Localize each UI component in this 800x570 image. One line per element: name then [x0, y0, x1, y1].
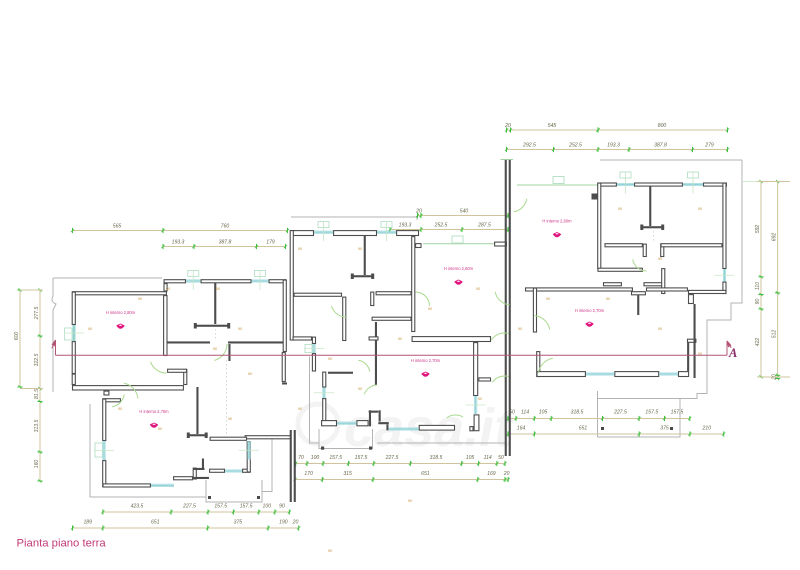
- party wall u2-u3 right: [509, 160, 511, 456]
- svg-text:227.5: 227.5: [385, 455, 399, 461]
- svg-text:105: 105: [466, 455, 475, 461]
- unit2 lower room left wall b: [323, 399, 326, 422]
- unit1 door arc room1: [151, 362, 167, 373]
- svg-text:H interno 2,80m: H interno 2,80m: [106, 310, 136, 315]
- unit3 door arc hall: [633, 259, 647, 271]
- unit2 window bottom east: [389, 428, 419, 430]
- unit2 T-bar caps: [351, 274, 374, 280]
- pergola sill unit3: [553, 177, 564, 184]
- unit1 top wall high seg c: [269, 280, 286, 283]
- unit1 bottom wall notch: [104, 391, 109, 395]
- unit1 inner partition H: [210, 437, 246, 440]
- svg-text:375: 375: [234, 520, 243, 526]
- unit2 niche left: [369, 410, 371, 426]
- svg-text:81.5: 81.5: [34, 389, 40, 399]
- unit2 door arc bottom door: [447, 415, 463, 418]
- svg-text:227.5: 227.5: [613, 410, 627, 416]
- unit1 inner T bar: [188, 434, 207, 436]
- svg-text:H interno 2,60m: H interno 2,60m: [542, 219, 572, 224]
- unit3 door arc strip2: [514, 199, 527, 212]
- unit1 window bottom1: [151, 484, 174, 486]
- unit1 door arc H1: [214, 344, 227, 360]
- unit2 living bottom wall: [412, 337, 490, 342]
- unit3 mid wall piece b: [644, 283, 664, 286]
- unit1 window lower-right wall: [239, 441, 259, 460]
- section arrow right: [727, 341, 731, 355]
- orange door-size labels: [88, 207, 703, 553]
- unit1 window top b2: [252, 271, 269, 291]
- unit1 window bottom2: [225, 470, 242, 472]
- svg-text:157.5: 157.5: [240, 504, 253, 510]
- unit1 entrance step2: [193, 477, 209, 479]
- unit1 top step wall: [164, 284, 167, 291]
- terrace corner dots unit1: [208, 496, 260, 499]
- unit1 lower room right top: [245, 436, 290, 439]
- unit2 L-wall vertical: [474, 415, 479, 431]
- unit3 partition H right: [661, 244, 722, 247]
- dim row unit1 bottom first: [101, 504, 291, 515]
- unit1 left wall upper: [72, 292, 75, 324]
- unit2 top wall seg c: [397, 231, 419, 236]
- unit1 top wall high seg b: [201, 280, 251, 283]
- svg-text:157.5: 157.5: [645, 410, 658, 416]
- unit1 top wall high seg a: [164, 280, 185, 283]
- svg-text:20: 20: [503, 471, 510, 477]
- unit2 window bottom long: [337, 422, 356, 424]
- svg-text:90: 90: [279, 504, 285, 510]
- svg-text:20: 20: [415, 209, 422, 215]
- unit3 top wall seg c: [704, 183, 727, 186]
- unit1 partition H1 right: [228, 341, 283, 343]
- unit3 window bottom1: [586, 373, 614, 375]
- unit1 entrance step3: [202, 459, 204, 471]
- svg-text:277.5: 277.5: [34, 306, 40, 320]
- unit2 right wall living: [412, 237, 415, 332]
- unit1 bottom-left corner bit: [72, 374, 75, 384]
- unit1 right wall foot: [282, 382, 287, 384]
- svg-text:651: 651: [421, 471, 430, 477]
- svg-text:692: 692: [771, 233, 777, 242]
- party wall u1-u2 upper: [290, 430, 292, 502]
- room label unit2 living: [444, 266, 474, 285]
- svg-text:600: 600: [14, 332, 20, 341]
- unit1 bottom wall band: [73, 386, 184, 390]
- unit3 lower-left bottom: [598, 268, 642, 271]
- watermark: [298, 398, 514, 458]
- unit3 partition H left jamb: [643, 244, 646, 256]
- unit1 door arc lower room: [124, 383, 138, 398]
- unit3 window top1: [617, 172, 634, 194]
- unit2 lower room bottom a: [322, 421, 337, 426]
- unit1 step up wall: [184, 370, 187, 385]
- unit3 left wall stub: [592, 194, 598, 200]
- svg-text:651: 651: [579, 426, 588, 432]
- svg-text:292.5: 292.5: [522, 143, 536, 149]
- sill box unit1 lowleft window: [95, 443, 103, 457]
- unit2 door arc living: [416, 292, 430, 306]
- unit2 niche top: [369, 411, 379, 413]
- dim col left inner: [34, 288, 43, 482]
- dim row unit3 top second: [505, 143, 729, 153]
- svg-text:545: 545: [548, 123, 557, 129]
- dashed centerline unit3: [653, 231, 655, 243]
- unit2 lower left horiz: [328, 372, 353, 374]
- svg-text:210: 210: [702, 426, 712, 432]
- svg-text:100: 100: [263, 504, 272, 510]
- unit3 T2 stem: [637, 292, 639, 316]
- terrace corner dots unit2: [321, 447, 372, 450]
- unit2 door arc party: [491, 333, 508, 340]
- svg-text:375: 375: [660, 426, 669, 432]
- unit1 T-bar caps: [194, 323, 230, 329]
- svg-text:Pianta piano terra: Pianta piano terra: [17, 538, 107, 550]
- svg-text:565: 565: [113, 224, 122, 230]
- svg-text:252.5: 252.5: [568, 143, 582, 149]
- room label unit2 lower: [411, 358, 441, 377]
- unit3 door arc strip: [495, 292, 509, 305]
- unit3 top wall seg b: [635, 183, 683, 186]
- dim row unit1 top first: [71, 224, 289, 234]
- svg-text:279: 279: [704, 143, 714, 149]
- unit3 lower room right wall: [687, 342, 689, 371]
- svg-text:90: 90: [755, 299, 761, 305]
- unit1 right wall lower: [282, 353, 285, 382]
- terrace outline unit1 left: [90, 404, 206, 497]
- unit2 partition H upper: [294, 293, 341, 296]
- unit2 top wall seg a: [291, 231, 314, 236]
- unit1 lower room bottom d: [243, 469, 250, 472]
- svg-text:20: 20: [504, 123, 511, 129]
- unit2 T-partition bar: [352, 275, 373, 277]
- unit1 lower room left top bit: [103, 399, 120, 402]
- unit2 lower left wall low: [312, 354, 315, 371]
- svg-text:318.5: 318.5: [430, 455, 443, 461]
- unit1 lower room left wall a: [103, 399, 106, 440]
- party wall u2-u3 left: [505, 160, 507, 456]
- dashed centerline unit1: [225, 360, 227, 436]
- unit1 partition V2: [228, 344, 230, 361]
- unit2 bottom thin piece: [378, 422, 389, 424]
- unit2 bottom wall east: [419, 425, 454, 430]
- unit1 step horiz wall: [168, 369, 187, 372]
- unit3 T-partition bar: [642, 226, 664, 228]
- dashed centerline unit1b: [215, 329, 217, 341]
- svg-text:179: 179: [266, 240, 275, 246]
- unit2 top wall seg b: [334, 231, 377, 236]
- svg-text:50: 50: [498, 455, 504, 461]
- unit3 lower room top wall: [526, 288, 633, 291]
- unit3 T2 bar: [632, 292, 646, 295]
- dim row unit3 bottom second: [506, 426, 725, 437]
- svg-text:423.5: 423.5: [131, 504, 144, 510]
- unit2 hall wall: [369, 337, 378, 340]
- svg-text:318.5: 318.5: [571, 410, 584, 416]
- dim col left outer: [14, 288, 23, 388]
- unit1 T-partition bar: [195, 325, 229, 327]
- unit2 step-out wall: [293, 337, 311, 340]
- unit1 lower room left wall b: [103, 461, 106, 487]
- unit1 lower room bottom a: [103, 484, 150, 487]
- unit2 window room-left: [314, 388, 334, 399]
- unit2 right wall jog: [416, 244, 421, 248]
- unit2 T-partition stem: [364, 236, 366, 275]
- svg-text:157.5: 157.5: [329, 455, 342, 461]
- terrace outline unit3: [600, 159, 742, 161]
- svg-text:100: 100: [311, 455, 320, 461]
- svg-text:193.3: 193.3: [399, 223, 412, 229]
- dim row unit2 bottom first: [294, 455, 507, 466]
- room label unit3 lower: [575, 308, 605, 327]
- unit3 bottom-right wall: [689, 290, 726, 293]
- unit3 right wall: [723, 183, 726, 268]
- svg-text:227.5: 227.5: [182, 504, 196, 510]
- svg-text:157.5: 157.5: [671, 410, 684, 416]
- unit2 partition V mid: [343, 297, 346, 340]
- unit2 window east vert: [466, 396, 486, 414]
- dim row unit3 bottom first: [506, 410, 691, 422]
- svg-text:189: 189: [83, 520, 92, 526]
- terrace outline unit1 top: [52, 278, 162, 392]
- unit1 entrance step: [193, 468, 196, 479]
- unit3 door arc bottom: [538, 358, 553, 373]
- unit2 door arc hall h: [358, 360, 369, 371]
- svg-text:H interno 2,70m: H interno 2,70m: [575, 308, 605, 313]
- unit3 lower room bottom a: [537, 372, 585, 377]
- party wall u1-u2 lower: [294, 430, 296, 502]
- unit2 door arc a: [332, 306, 347, 317]
- unit1 entrance step4: [193, 468, 205, 470]
- svg-text:164: 164: [517, 426, 526, 432]
- terrace outline unit1 right: [262, 436, 272, 492]
- svg-text:760: 760: [221, 224, 230, 230]
- svg-text:105: 105: [539, 410, 548, 416]
- unit3 outer east wall: [694, 304, 696, 378]
- dim row unit1 top second: [161, 240, 287, 250]
- unit2 lower room bottom b: [357, 421, 368, 426]
- unit2 lower room left wall: [323, 372, 326, 387]
- unit1 door arc hall: [112, 395, 124, 407]
- unit1 lower room right wall: [247, 442, 250, 472]
- unit3 partition H right jamb: [661, 244, 664, 256]
- svg-text:H interno 2,60m: H interno 2,60m: [444, 266, 474, 271]
- svg-text:190: 190: [279, 520, 288, 526]
- svg-text:170: 170: [304, 471, 313, 477]
- room label unit3 strip: [542, 219, 572, 238]
- svg-text:114: 114: [521, 410, 529, 416]
- unit2 window top1: [314, 222, 333, 242]
- svg-text:592: 592: [755, 225, 761, 234]
- unit1 T-partition stem: [214, 283, 216, 324]
- section line A-A: [56, 354, 728, 356]
- unit2 east room stub: [479, 378, 491, 381]
- unit1 inner T-bar caps: [187, 433, 208, 439]
- unit2 door arc lower: [364, 385, 377, 394]
- unit3 partition H left: [605, 244, 642, 247]
- svg-text:20: 20: [292, 520, 299, 526]
- unit1 partition left room: [164, 296, 167, 356]
- svg-text:800: 800: [658, 123, 667, 129]
- svg-text:157.5: 157.5: [214, 504, 227, 510]
- dim col right outer: [771, 180, 780, 381]
- unit3 T-bar caps: [640, 225, 664, 231]
- sill box unit2 left window: [305, 345, 312, 353]
- unit1 lower room bottom b: [174, 477, 193, 480]
- svg-text:313.5: 313.5: [34, 419, 40, 432]
- dim col right inner: [755, 180, 764, 379]
- svg-text:322.5: 322.5: [34, 353, 40, 366]
- unit2 window lower-left: [304, 344, 324, 353]
- terrace corner dots unit3: [601, 427, 673, 430]
- dim row unit2 top first: [415, 209, 509, 219]
- svg-text:252.5: 252.5: [434, 223, 448, 229]
- unit1 right wall: [283, 280, 286, 351]
- unit3 window right wall: [715, 269, 735, 282]
- terrace outline unit2 left: [310, 357, 320, 444]
- unit3 mid vertical: [662, 269, 665, 294]
- unit3 right wall low: [723, 282, 726, 293]
- unit2 window top2: [377, 222, 396, 242]
- svg-text:114: 114: [484, 455, 492, 461]
- unit2 niche right: [379, 410, 381, 421]
- unit3 T-partition stem: [649, 187, 651, 227]
- unit2 partition H3: [372, 317, 411, 320]
- unit3 door arc left: [535, 316, 550, 330]
- terrace outline unit3 porch: [598, 391, 681, 437]
- svg-text:315: 315: [343, 471, 352, 477]
- unit3 lower room right top: [688, 339, 696, 342]
- terrace outline unit1 porch: [206, 480, 262, 502]
- unit3 mid wall piece: [604, 283, 622, 286]
- svg-text:193.3: 193.3: [172, 240, 185, 246]
- unit3 left wall lower a: [533, 288, 536, 332]
- dim col right connectors: [742, 182, 790, 378]
- svg-text:387.8: 387.8: [654, 143, 667, 149]
- unit1 lower room bottom c: [210, 469, 225, 472]
- axis line unit2 pergola: [423, 243, 494, 245]
- dim row unit3 top first: [504, 123, 599, 133]
- unit1 window left wall: [64, 325, 84, 341]
- axis line unit3 pergola: [517, 184, 598, 186]
- unit1 left wall lower: [72, 342, 75, 374]
- svg-text:157.5: 157.5: [355, 455, 368, 461]
- unit2 pergola right wall: [495, 242, 507, 246]
- axis line unit1 left window: [73, 296, 75, 389]
- sill box unit1 left window: [65, 328, 73, 340]
- svg-text:651: 651: [151, 520, 160, 526]
- unit3 left wall: [598, 183, 601, 268]
- unit3 window top2: [683, 172, 703, 194]
- svg-text:A: A: [728, 346, 737, 360]
- unit3 lower room top wall b: [647, 288, 688, 291]
- svg-text:422: 422: [755, 338, 761, 347]
- dim row unit3 top first right: [596, 123, 729, 133]
- svg-text:160: 160: [34, 460, 40, 469]
- terrace outline unit2 top: [291, 217, 417, 220]
- terrace outline unit2 porch: [319, 429, 373, 449]
- svg-text:193.3: 193.3: [607, 143, 620, 149]
- svg-text:110: 110: [755, 282, 761, 290]
- unit2 partition H2 jamb: [371, 292, 374, 305]
- svg-text:H interno 2,70m: H interno 2,70m: [411, 358, 441, 363]
- unit1 window top b1: [186, 271, 201, 291]
- unit3 bottom-right notch: [689, 295, 694, 304]
- pergola sill unit2: [452, 236, 463, 243]
- unit2 jamb near hall: [375, 322, 377, 385]
- unit2 lower left wall upper: [312, 337, 315, 343]
- svg-text:540: 540: [460, 209, 469, 215]
- dim row unit2 bottom second: [293, 471, 509, 482]
- unit3 lower room bottom b: [615, 372, 659, 377]
- svg-text:387.8: 387.8: [219, 240, 232, 246]
- unit1 partition H1 left: [167, 341, 211, 343]
- unit1 window lower-left wall: [94, 441, 114, 460]
- svg-text:169: 169: [487, 471, 496, 477]
- svg-text:287.5: 287.5: [477, 223, 491, 229]
- unit3 left wall lower b: [537, 352, 540, 377]
- unit2 L-wall foot: [470, 427, 473, 431]
- dim row unit2 top second: [388, 223, 509, 233]
- unit2 partition H2: [376, 292, 411, 295]
- section arrow left: [52, 340, 56, 355]
- unit3 lower room bottom c: [679, 372, 689, 377]
- unit1 inner T stem: [196, 387, 198, 434]
- dim col left connectors: [20, 290, 43, 389]
- unit3 window bottom2: [659, 373, 678, 375]
- party wall top tick: [501, 159, 514, 161]
- unit1 top wall left room: [73, 292, 167, 295]
- unit2 east room left wall: [474, 343, 478, 396]
- svg-text:70: 70: [298, 455, 304, 461]
- terrace outline unit3 right: [598, 160, 743, 399]
- unit2 door arc party2: [492, 376, 508, 382]
- svg-text:H interno 2,70m: H interno 2,70m: [139, 409, 169, 414]
- unit2 bottom step bit: [386, 424, 388, 430]
- room label unit1 lower: [139, 409, 169, 428]
- terrace outline unit2 right: [377, 442, 506, 444]
- room label unit1 upper: [106, 310, 136, 329]
- svg-text:512: 512: [771, 330, 777, 339]
- unit2 left wall: [290, 231, 293, 340]
- unit3 top wall seg a: [598, 183, 616, 186]
- dim row unit1 bottom second: [71, 520, 300, 531]
